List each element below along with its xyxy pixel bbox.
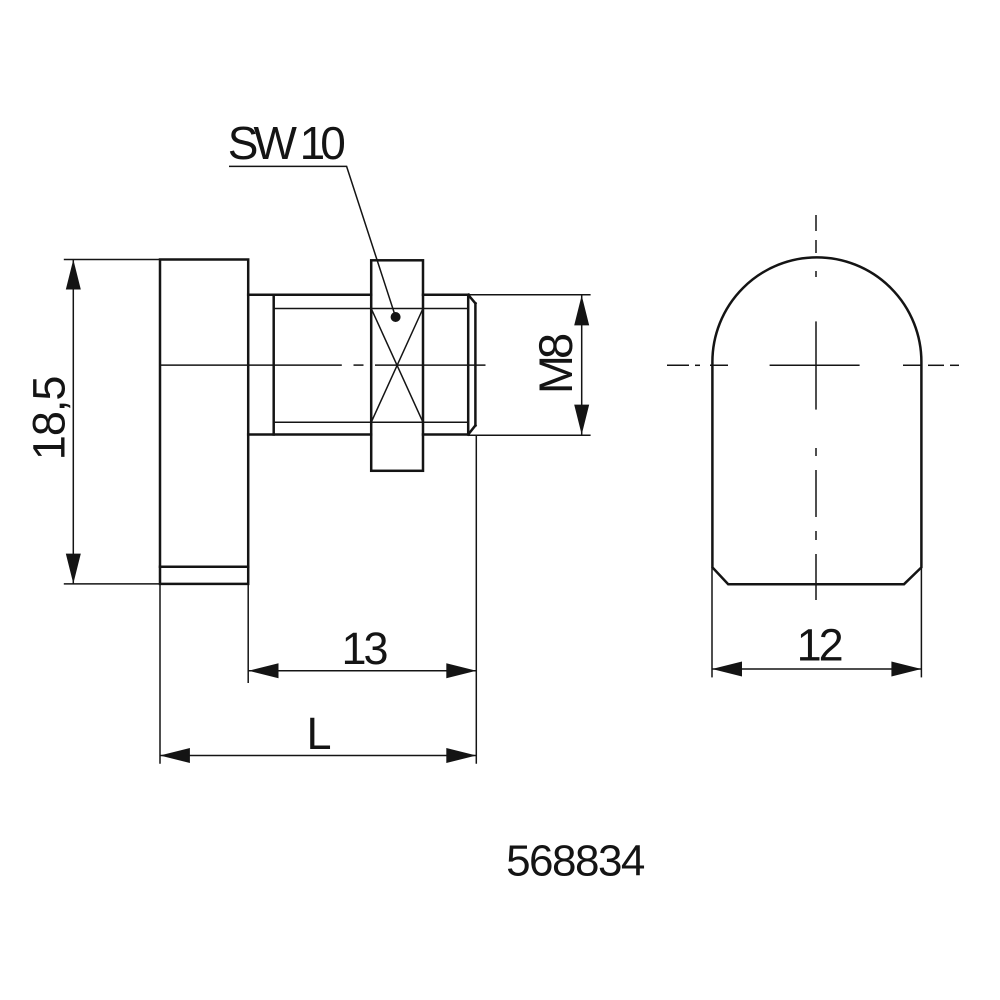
svg-text:12: 12	[797, 620, 842, 671]
svg-text:M8: M8	[529, 334, 582, 394]
svg-text:SW 10: SW 10	[228, 117, 344, 169]
svg-text:568834: 568834	[506, 837, 645, 886]
svg-text:13: 13	[341, 623, 387, 674]
svg-text:L: L	[306, 708, 331, 759]
svg-text:18,5: 18,5	[24, 377, 75, 461]
